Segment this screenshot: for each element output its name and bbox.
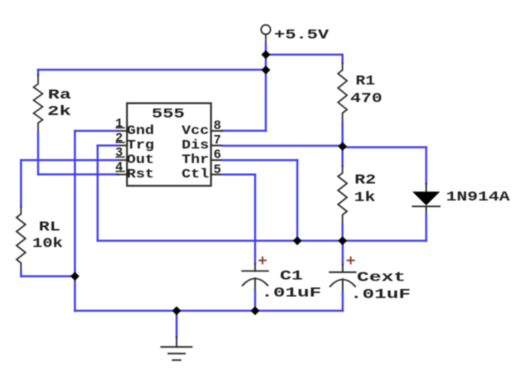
svg-text:1k: 1k [354, 191, 375, 206]
ground [161, 337, 192, 360]
wire ground lead [176, 311, 178, 337]
resistor Ra [34, 75, 43, 132]
wire Trg pin2 horizontal [98, 145, 118, 147]
node RL-Gnd junction [70, 272, 79, 281]
svg-text:6: 6 [214, 147, 222, 162]
pin 2 stub [117, 145, 127, 147]
node R1-R2-Dis junction [338, 142, 347, 151]
wire junction to diode branch [343, 146, 427, 148]
pin 4 stub [117, 174, 127, 176]
wire diode cathode vertical [425, 214, 427, 241]
svg-text:4: 4 [115, 159, 123, 174]
pin 7 stub [211, 145, 222, 147]
svg-text:R2: R2 [355, 174, 377, 189]
svg-text:Dis: Dis [182, 138, 209, 153]
wire down to ground rail [74, 276, 76, 311]
op-amp U1 555 IC box [127, 103, 211, 186]
C1 plus sign [259, 257, 266, 263]
svg-text:Thr: Thr [182, 152, 209, 167]
wire Trg vertical [97, 146, 99, 241]
svg-text:470: 470 [350, 92, 382, 107]
wire Rst pin4 horizontal [38, 173, 117, 175]
wire mid rail (Trg-Thr-R2-diode) [98, 240, 427, 242]
wire Ra bottom vertical [37, 132, 39, 175]
svg-text:R1: R1 [356, 75, 375, 90]
wire Ra top stub [37, 70, 39, 75]
wire Thr vertical [296, 160, 298, 241]
svg-text:7: 7 [214, 133, 222, 148]
wire RL bottom vertical [20, 271, 22, 276]
svg-text:RL: RL [39, 220, 61, 235]
pin 3 stub [117, 159, 127, 161]
pin 6 stub [211, 159, 222, 161]
svg-text:8: 8 [214, 118, 222, 133]
svg-text:Out: Out [127, 152, 154, 167]
svg-text:555: 555 [152, 107, 185, 122]
node R2-Cext junction [338, 236, 347, 245]
wire diode anode vertical [425, 147, 427, 183]
svg-text:1: 1 [115, 116, 123, 131]
svg-text:10k: 10k [32, 237, 63, 252]
svg-text:.01uF: .01uF [261, 287, 321, 302]
wire Cext bottom [342, 292, 344, 311]
wire C1 bottom [254, 290, 256, 310]
wire R1 top stub [342, 55, 344, 63]
node ground rail junction [172, 306, 181, 315]
resistor RL [17, 206, 26, 271]
svg-text:Rst: Rst [127, 167, 154, 182]
wire ground rail [75, 310, 343, 312]
wire supply vertical to Vcc [265, 45, 267, 131]
wire top rail to R1 [266, 54, 343, 56]
capacitor Cext [330, 264, 356, 292]
svg-text:C1: C1 [280, 270, 303, 285]
svg-text:Trg: Trg [127, 138, 154, 153]
resistor R1 [338, 63, 347, 122]
pin 1 stub [117, 130, 127, 132]
svg-text:+5.5V: +5.5V [274, 29, 330, 44]
pin 5 stub [211, 174, 222, 176]
wire Out vertical to RL [20, 160, 22, 206]
svg-text:Cext: Cext [357, 271, 406, 286]
capacitor C1 [242, 264, 268, 291]
node supply-Ra junction [261, 66, 270, 75]
node C1-ground rail junction [251, 306, 260, 315]
wire RL bottom horizontal [21, 275, 75, 277]
svg-text:.01uF: .01uF [350, 288, 411, 303]
wire top rail to Ra [38, 69, 266, 71]
wire Thr pin6 horizontal [222, 159, 297, 161]
node supply-R1 junction [261, 50, 270, 59]
wire Cext top [342, 241, 344, 265]
svg-text:Vcc: Vcc [182, 123, 209, 138]
svg-text:3: 3 [115, 145, 123, 160]
wire R1 bottom [342, 122, 344, 146]
Cext plus sign [348, 257, 355, 263]
diode D1 1N914A [412, 184, 440, 214]
svg-text:1N914A: 1N914A [446, 191, 511, 206]
svg-text:2k: 2k [47, 105, 71, 120]
wire Vcc pin8 horizontal [222, 130, 266, 132]
wire Ctl vertical to C1 [254, 175, 256, 264]
wire Ctl pin5 horizontal [222, 174, 255, 176]
wire R2 bottom [342, 224, 344, 241]
svg-text:Gnd: Gnd [127, 123, 154, 138]
wire Dis pin7 horizontal [222, 145, 343, 147]
svg-text:2: 2 [115, 130, 123, 145]
wire Gnd pin1 horizontal [75, 130, 118, 132]
svg-text:Ctl: Ctl [182, 167, 210, 182]
pin 8 stub [211, 130, 222, 132]
svg-text:5: 5 [214, 162, 222, 177]
wire R2 top [342, 146, 344, 166]
svg-text:Ra: Ra [48, 89, 71, 104]
power terminal +5.5V open circle [261, 25, 270, 45]
wire Out pin3 horizontal [21, 159, 117, 161]
wire Gnd vertical [74, 131, 76, 276]
node Thr junction [293, 236, 302, 245]
resistor R2 [338, 166, 347, 224]
